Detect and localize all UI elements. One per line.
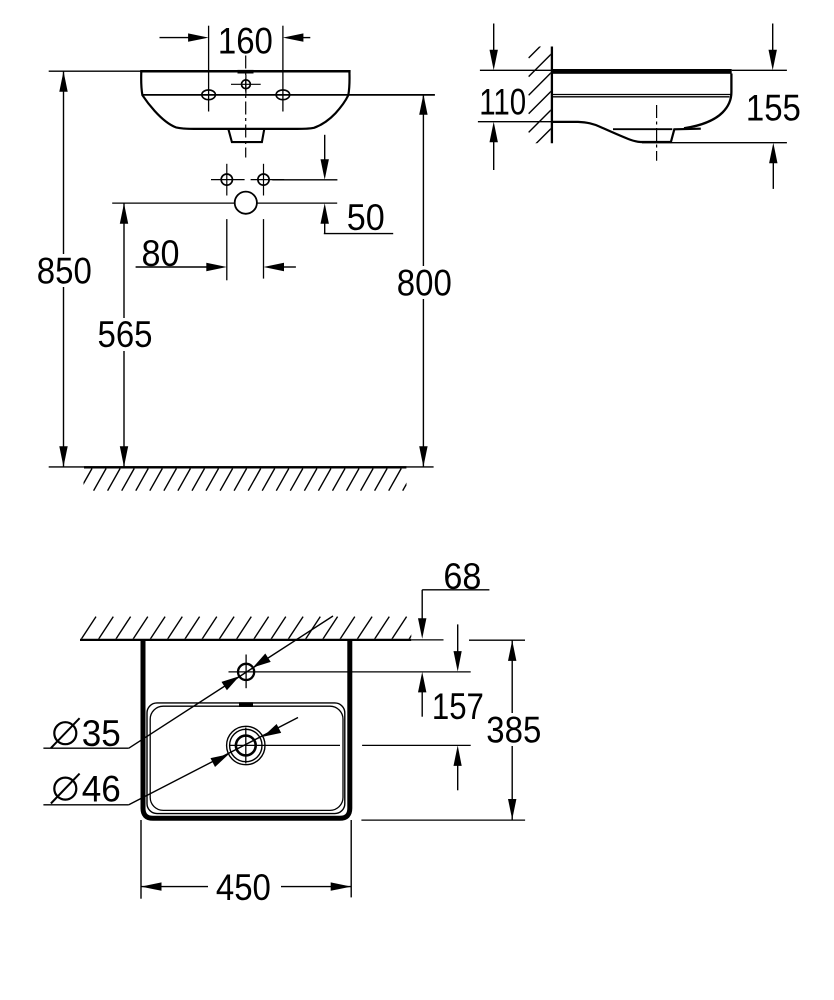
floor line thick ground segment bbox=[84, 466, 406, 468]
front view: left fixing hole ellipse bbox=[202, 90, 216, 100]
plan view: drain middle circle bbox=[230, 729, 262, 761]
plan view: inner bowl outer line bbox=[147, 703, 345, 814]
side view: right edge profile bbox=[684, 74, 731, 129]
dimension 160: arrows and tails bbox=[160, 37, 191, 39]
dimension 385: bottom extension line bbox=[361, 819, 525, 821]
dimension 155: arrows bbox=[772, 24, 774, 52]
small holes level right extension (50 reference) bbox=[272, 179, 337, 181]
underline leader of 35 bbox=[43, 747, 128, 749]
leader arrows at tap hole bbox=[222, 676, 240, 690]
svg-text:50: 50 bbox=[347, 197, 385, 238]
dimension 850: text bbox=[36, 254, 92, 287]
underline leader of 46 bbox=[43, 804, 128, 806]
leader arrows at drain bbox=[211, 754, 229, 767]
svg-text:155: 155 bbox=[746, 88, 801, 129]
plan view: tap hole circle bbox=[238, 664, 254, 680]
front view: drain trap trapezoid bbox=[228, 129, 264, 142]
drain crosshair vertical bbox=[245, 728, 247, 764]
drain hole circle bbox=[235, 192, 257, 214]
dimension 68: lower arrow (to tap level) bbox=[421, 691, 423, 717]
side view: wall line bbox=[551, 47, 553, 144]
svg-text:68: 68 bbox=[443, 556, 481, 597]
tap hole crosshair vertical bbox=[245, 655, 247, 689]
dimension 110: top extension line bbox=[480, 69, 552, 71]
svg-text:850: 850 bbox=[37, 251, 92, 292]
svg-text:800: 800 bbox=[397, 262, 452, 303]
front view: rim top line bbox=[140, 70, 350, 73]
front view: tap hole circle with crosshair bbox=[242, 80, 251, 89]
drain level line segments (157/385 reference) bbox=[230, 744, 341, 746]
side view: rim top thick band bbox=[552, 69, 732, 74]
tap hole level line (68/157 reference) bbox=[229, 671, 471, 673]
lower small holes: left crosshair circle bbox=[221, 174, 232, 185]
front view: right fixing hole ellipse bbox=[276, 90, 290, 100]
svg-text:157: 157 bbox=[432, 686, 484, 727]
label diameter 46 bbox=[54, 778, 76, 800]
dimension 155: top extension line bbox=[732, 69, 787, 71]
dimension 50: lower arrow and leader bbox=[321, 203, 329, 224]
side view: bottom profile with drain bbox=[552, 122, 701, 142]
leader line for tap hole diameter bbox=[129, 616, 333, 748]
side view: wall hatching bbox=[529, 34, 553, 169]
dimension 800: text bbox=[396, 266, 453, 299]
plan view: drain inner thick circle bbox=[236, 736, 256, 756]
dimension 450: extension lines bbox=[140, 820, 142, 899]
floor hatching bbox=[66, 469, 416, 491]
plan view: inner bowl inner line bbox=[150, 706, 343, 810]
side view: centerline (dash-dot) bbox=[656, 105, 658, 161]
dimension 800: vertical line bbox=[422, 94, 424, 467]
dimension 385: top extension line bbox=[469, 639, 525, 641]
dimension 110: bottom extension line bbox=[478, 121, 552, 123]
dimension 385: text bbox=[485, 713, 543, 746]
plan view: wall line bbox=[80, 639, 411, 641]
dimension 157: upper arrow bbox=[457, 624, 459, 652]
floor line thin extension bbox=[49, 466, 434, 468]
leader line for drain diameter bbox=[129, 718, 298, 805]
plan view: basin outer rectangle (thick) bbox=[143, 641, 350, 818]
dimension 850: vertical line bbox=[63, 71, 65, 466]
front view: vertical centerline (dash-dot) bbox=[245, 56, 247, 158]
dimension 450: text bbox=[208, 870, 281, 903]
svg-text:110: 110 bbox=[479, 82, 526, 123]
dimension 50: upper arrow bbox=[324, 135, 326, 160]
dimension 68: upper arrow (to wall) bbox=[421, 590, 423, 619]
front view: back rim line through fixing holes, extends right as 800 extension bbox=[142, 94, 435, 96]
dimension 155: bottom extension line bbox=[642, 142, 787, 144]
label diameter 35 bbox=[54, 722, 76, 744]
front view: overflow tick on rim bbox=[238, 70, 254, 74]
drain level horizontal line (565 reference), left and right of circle bbox=[112, 202, 235, 204]
plan view: overflow slot bbox=[239, 702, 253, 707]
lower small holes: right crosshair circle bbox=[258, 174, 269, 185]
plan view: drain outer circle bbox=[227, 726, 265, 764]
side view: rim underside double lines bbox=[552, 94, 731, 96]
svg-text:565: 565 bbox=[98, 314, 153, 355]
dimension 450: line with inward arrows bbox=[141, 886, 351, 888]
dimension 385: vertical line bbox=[511, 640, 513, 819]
plan view: wall hatching bbox=[64, 617, 424, 640]
svg-text:80: 80 bbox=[142, 233, 180, 274]
svg-text:450: 450 bbox=[216, 867, 271, 908]
plan view: wall line thin extension right bbox=[411, 639, 443, 641]
dimension 80: line with arrows bbox=[136, 266, 207, 268]
svg-text:46: 46 bbox=[82, 769, 121, 810]
dimension 850: top extension line bbox=[49, 70, 141, 72]
extension lines below small holes (80 reference) bbox=[226, 219, 228, 280]
svg-text:385: 385 bbox=[486, 710, 541, 751]
dimension 565: text bbox=[96, 318, 153, 351]
side view: drain top line bbox=[613, 128, 672, 130]
dimension 160: extension lines bbox=[208, 26, 210, 112]
dimension 565: vertical line bbox=[123, 203, 125, 467]
dimension 157: lower arrow bbox=[457, 765, 459, 790]
svg-text:160: 160 bbox=[218, 21, 273, 62]
front view: basin outline bbox=[141, 71, 349, 129]
dimension 68: leader underline and text bbox=[422, 589, 489, 591]
dimension 110: arrows bbox=[493, 24, 495, 52]
